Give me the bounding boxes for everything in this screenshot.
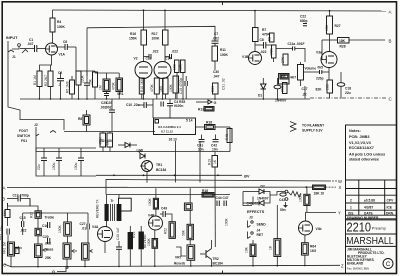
svg-text:R11: R11 (220, 48, 226, 52)
svg-text:1N4007: 1N4007 (257, 197, 269, 201)
svg-text:R17: R17 (152, 32, 158, 36)
resistor R4 (52, 10, 54, 18)
svg-text:1: 1 (350, 206, 352, 210)
svg-text:TO FILAMENT: TO FILAMENT (302, 124, 324, 128)
svg-text:0k5: 0k5 (318, 66, 324, 70)
resistor R23 (213, 83, 219, 94)
svg-text:10K: 10K (179, 63, 183, 70)
svg-text:8,7 11,12: 8,7 11,12 (161, 130, 173, 134)
svg-text:1K8: 1K8 (173, 64, 177, 70)
svg-text:10K: 10K (245, 246, 249, 253)
svg-text:A: A (3, 186, 6, 191)
BOTTOM CHANNEL (0, 152, 344, 275)
svg-text:100K: 100K (220, 53, 229, 57)
svg-text:V1,V2,V3,V4: V1,V2,V3,V4 (349, 141, 372, 145)
svg-text:C44: C44 (216, 196, 222, 200)
resistor R59 (304, 194, 310, 205)
svg-text:680p: 680p (300, 19, 308, 23)
diode D1 (261, 84, 267, 89)
resistor R3 (76, 71, 81, 85)
svg-text:C43: C43 (279, 198, 285, 202)
wire anode to coupling cap (56, 46, 65, 48)
resistor R54 (184, 203, 192, 210)
svg-text:100K: 100K (299, 193, 303, 202)
svg-text:10K: 10K (14, 245, 18, 252)
svg-text:220p: 220p (316, 77, 324, 81)
svg-text:18K: 18K (339, 39, 346, 43)
svg-text:16 13: 16 13 (169, 138, 177, 142)
jack J1 (8, 41, 28, 58)
transistor TR2 (205, 250, 207, 258)
svg-text:C30: C30 (213, 70, 219, 74)
wire line A (7, 186, 306, 188)
diode D3 (259, 201, 264, 206)
svg-text:R8: R8 (78, 117, 82, 121)
svg-text:Y: Y (338, 211, 341, 216)
svg-text:B: B (389, 39, 392, 44)
TITLE BLOCK (346, 125, 397, 273)
diode D4 (125, 143, 130, 148)
svg-text:ISS.: ISS. (348, 211, 354, 215)
bus line mid1 (64, 131, 155, 133)
svg-text:V2: V2 (134, 57, 138, 61)
svg-text:C47: C47 (223, 196, 229, 200)
svg-text:IC1 CA3080A 2,4: IC1 CA3080A 2,4 (158, 125, 181, 129)
svg-text:10n: 10n (212, 148, 218, 152)
resistor R35 VCF (35, 228, 41, 236)
wire HT bus A (53, 10, 387, 11)
svg-text:PCB: JMB3: PCB: JMB3 (349, 135, 369, 139)
svg-text:BC184: BC184 (213, 262, 223, 266)
svg-text:V4A: V4A (92, 225, 99, 229)
pot RV6 (139, 232, 144, 250)
svg-text:ICE: ICE (387, 206, 393, 210)
svg-text:.002: .002 (213, 37, 220, 41)
svg-text:.022: .022 (20, 229, 27, 233)
resistor R5 (70, 80, 75, 94)
svg-text:C46 .02: C46 .02 (247, 202, 259, 206)
resistor R11 (212, 46, 218, 61)
svg-text:470K: 470K (270, 47, 274, 56)
wire long vertical (214, 167, 216, 247)
reverb tank jack (285, 190, 288, 193)
svg-text:D2: D2 (261, 185, 265, 189)
svg-text:All pots LOG unless: All pots LOG unless (349, 153, 385, 157)
svg-text:C27: C27 (80, 222, 86, 226)
svg-text:9100n: 9100n (174, 104, 183, 108)
resistor R51 (187, 224, 193, 239)
wire channel top rail (106, 180, 331, 195)
svg-text:ZD1 15V: ZD1 15V (100, 139, 114, 143)
svg-text:R7: R7 (262, 28, 266, 32)
svg-text:1K5: 1K5 (310, 249, 316, 253)
svg-text:RET: RET (257, 233, 264, 237)
resistor R14 (100, 133, 106, 147)
svg-text:DRN.: DRN. (386, 211, 394, 215)
svg-text:R28: R28 (340, 45, 346, 49)
capacitor C23 (56, 157, 62, 159)
MIDDLE SECTION (8, 58, 296, 183)
svg-text:R27: R27 (335, 24, 341, 28)
svg-text:EFFECTS: EFFECTS (247, 210, 265, 214)
resistor R7 (254, 11, 256, 28)
svg-text:.002: .002 (100, 106, 107, 110)
resistor R56 (274, 239, 281, 257)
svg-text:150K: 150K (129, 37, 138, 41)
svg-text:10n: 10n (198, 148, 204, 152)
capacitor C5 (84, 82, 90, 84)
svg-text:DATE: DATE (364, 211, 374, 215)
triode V4B2 (299, 221, 313, 235)
svg-text:R52: R52 (164, 228, 168, 234)
svg-text:100K: 100K (225, 217, 229, 226)
svg-text:470K: 470K (150, 83, 154, 92)
svg-text:4K7: 4K7 (290, 76, 296, 80)
svg-text:82K: 82K (316, 88, 323, 92)
capacitor C18 (337, 83, 345, 87)
svg-text:stated otherwise: stated otherwise (349, 158, 379, 162)
svg-text:1M: 1M (99, 85, 103, 90)
resistor VR8 (116, 78, 123, 92)
svg-text:C14: C14 (165, 57, 171, 61)
svg-text:Z: Z (341, 263, 344, 268)
svg-text:100u: 100u (74, 162, 78, 170)
resistor R17 (164, 10, 166, 30)
svg-text:.01: .01 (82, 227, 87, 231)
svg-text:.022: .022 (260, 50, 267, 54)
capacitor C9 (160, 102, 162, 107)
svg-text:CPV: CPV (387, 199, 395, 203)
svg-text:V3a: V3a (316, 51, 322, 55)
resistor R14b (163, 78, 168, 94)
resistor R22 (283, 54, 288, 65)
svg-text:SUPPLY 6.3V: SUPPLY 6.3V (302, 129, 323, 133)
svg-text:C31 .02: C31 .02 (222, 78, 226, 90)
resistor R9 (270, 33, 275, 42)
svg-text:TR1: TR1 (156, 163, 162, 167)
svg-text:56K: 56K (182, 229, 186, 236)
svg-text:100K: 100K (152, 37, 161, 41)
transistor TR1 (142, 161, 153, 172)
resistor R64 (302, 243, 309, 255)
reverb output box (119, 198, 132, 211)
resistor R15 (107, 133, 113, 147)
wire drops to lower bus (175, 141, 177, 183)
svg-text:C22: C22 (300, 15, 306, 19)
svg-text:RV5: RV5 (132, 231, 136, 238)
resistor R12 (103, 79, 110, 92)
svg-text:R64: R64 (310, 245, 316, 249)
svg-text:Volume: Volume (305, 67, 317, 71)
resistor R55 (250, 244, 256, 256)
diode box D5 (279, 74, 290, 85)
svg-text:Treble: Treble (45, 216, 55, 220)
ground arrow G (208, 100, 212, 104)
svg-text:18K 10: 18K 10 (314, 192, 325, 196)
svg-text:A: A (389, 9, 392, 14)
svg-text:4/3/87: 4/3/87 (364, 206, 373, 210)
svg-text:.022: .022 (172, 50, 179, 54)
notes box (346, 125, 397, 180)
svg-text:C48 4u7: C48 4u7 (116, 227, 120, 240)
svg-text:.047: .047 (213, 75, 220, 79)
resistor R45 (227, 129, 232, 143)
ground bus top stage (20, 98, 310, 100)
svg-text:TR2: TR2 (213, 257, 219, 261)
pot VR5 (82, 243, 90, 260)
svg-text:SWITCH: SWITCH (17, 134, 31, 138)
resistor R13b (154, 78, 159, 94)
svg-text:R5 1M8: R5 1M8 (65, 81, 69, 93)
drawing number 2210 Preamp (346, 219, 397, 221)
wire HT bus 2 (87, 26, 215, 41)
svg-text:C15 4700p: C15 4700p (179, 78, 183, 94)
IC1 (154, 118, 196, 135)
resistor R24 (283, 83, 288, 94)
title block outline (345, 125, 347, 273)
pot VR2 Bass (35, 244, 43, 258)
wire treble top (8, 206, 39, 211)
svg-text:J1: J1 (12, 55, 16, 59)
resistor R16 (143, 10, 145, 30)
svg-text:2: 2 (350, 199, 352, 203)
pot VR7 (187, 245, 195, 260)
resistor R26 (280, 74, 289, 79)
pot wiper VR1 (17, 247, 20, 250)
svg-text:BC184: BC184 (156, 168, 166, 172)
svg-text:470K: 470K (112, 81, 116, 90)
svg-text:V1A: V1A (59, 53, 66, 57)
resistor R1 (37, 71, 42, 87)
svg-text:C11a .001F: C11a .001F (288, 42, 305, 46)
filament arrows (290, 122, 296, 127)
resistor R18 cathode (139, 78, 144, 94)
svg-text:C49: C49 (161, 207, 167, 211)
svg-text:±0.5.88: ±0.5.88 (364, 199, 375, 203)
svg-text:Fax: BV090C 8BN: Fax: BV090C 8BN (347, 266, 369, 270)
resistor R52 (169, 222, 175, 239)
svg-text:R4: R4 (57, 20, 61, 24)
registration tick bottom (222, 271, 224, 274)
svg-text:R18: R18 (206, 121, 212, 125)
capacitor C24 (41, 157, 47, 159)
wire tone rail (7, 203, 9, 206)
dash-dot C line (310, 97, 386, 99)
junction dots ground bus (39, 98, 279, 100)
volume pot VR3 (298, 65, 304, 81)
wire drops from rails (29, 199, 31, 207)
svg-text:50n: 50n (280, 208, 286, 212)
svg-text:56K: 56K (3, 209, 7, 216)
svg-text:25K: 25K (45, 256, 52, 260)
wire to Y (306, 212, 337, 221)
svg-text:ENGLAND: ENGLAND (347, 262, 364, 266)
svg-text:100K: 100K (57, 25, 66, 29)
svg-text:G: G (214, 101, 217, 105)
svg-text:22u: 22u (345, 91, 351, 95)
resistor R19 (214, 152, 216, 156)
TOP CHANNEL (6, 9, 393, 132)
svg-text:C8: C8 (260, 38, 264, 42)
resistor R20 (175, 60, 180, 73)
svg-text:W: W (338, 179, 342, 184)
svg-text:G: G (52, 270, 55, 274)
svg-text:R2 2K7: R2 2K7 (44, 75, 48, 86)
svg-text:C7: C7 (214, 32, 218, 36)
resistor R25 (328, 68, 330, 81)
svg-text:100u: 100u (52, 162, 56, 170)
svg-text:R23: R23 (211, 86, 215, 92)
svg-text:2K5: 2K5 (326, 84, 330, 90)
bottom ground bus (11, 265, 340, 267)
svg-text:R13: R13 (198, 108, 204, 112)
svg-text:5 14: 5 14 (186, 119, 193, 123)
wire V2 to IC (152, 99, 154, 118)
resistor R10 (272, 45, 277, 58)
svg-text:.047: .047 (27, 42, 34, 46)
svg-text:J3: J3 (249, 216, 253, 220)
pot wiper VR5 (90, 250, 93, 253)
svg-text:VR1 1M: VR1 1M (3, 242, 7, 254)
svg-text:R16: R16 (130, 32, 136, 36)
capacitor C26 (78, 157, 84, 159)
resistor R21 (181, 60, 186, 73)
svg-text:Notes:: Notes: (349, 129, 361, 133)
svg-text:C6: C6 (63, 40, 67, 44)
svg-text:22u: 22u (37, 164, 41, 170)
capacitor C19 (274, 85, 281, 89)
svg-text:C25: C25 (101, 101, 107, 105)
bus line mid2 (36, 151, 230, 153)
svg-text:C21: C21 (0, 234, 2, 240)
svg-text:MARSHALL: MARSHALL (346, 236, 394, 247)
reverb spring (288, 191, 301, 197)
svg-text:C18: C18 (345, 87, 351, 91)
capacitor C43 (280, 193, 286, 196)
resistor R28 (338, 38, 350, 44)
svg-text:2210: 2210 (347, 221, 372, 235)
svg-text:Preamp: Preamp (372, 225, 387, 230)
svg-text:C10 .22u: C10 .22u (126, 103, 140, 107)
svg-text:REVERB TX: REVERB TX (96, 199, 100, 218)
svg-text:100K: 100K (169, 83, 173, 92)
resistor R30 (5, 210, 10, 218)
svg-text:1K5: 1K5 (159, 86, 163, 92)
triode V1A (46, 43, 58, 55)
cathode wires V1A (40, 55, 52, 71)
pot VR4 Middle (63, 243, 71, 259)
pot wiper VR2 (43, 249, 46, 252)
svg-text:R9: R9 (268, 37, 272, 41)
svg-text:.022: .022 (152, 50, 159, 54)
svg-text:C: C (386, 261, 391, 268)
capacitor C42 (213, 139, 219, 141)
0V rail (96, 174, 242, 176)
MARSHALL logo (346, 245, 397, 247)
resistor R6 (93, 72, 98, 87)
wire V3 grid (321, 52, 322, 60)
svg-text:ØV: ØV (244, 174, 250, 178)
svg-text:V4b: V4b (316, 227, 322, 231)
resistor R50 (153, 198, 158, 209)
svg-text:100K: 100K (148, 197, 152, 206)
resistor R8 (83, 115, 90, 125)
svg-text:220K: 220K (81, 74, 85, 83)
PSU cap bank outline (36, 148, 96, 176)
svg-text:V1B: V1B (242, 55, 249, 59)
svg-text:VR1: VR1 (117, 92, 124, 96)
capacitor C23 (104, 93, 109, 95)
svg-text:VR7: VR7 (175, 256, 182, 260)
resistor R2 (48, 71, 53, 87)
svg-text:C13: C13 (146, 57, 152, 61)
junction dots bottom bus (37, 265, 306, 268)
svg-text:Bass: Bass (46, 248, 54, 252)
svg-text:R19: R19 (208, 159, 212, 165)
pot RV5 (128, 232, 133, 249)
svg-text:R45: R45 (225, 134, 229, 140)
revision table (346, 180, 397, 219)
svg-text:ECC83/12AX7: ECC83/12AX7 (349, 146, 374, 150)
svg-text:Reverb: Reverb (174, 262, 185, 266)
svg-text:10K: 10K (89, 78, 93, 85)
svg-text:100K: 100K (58, 224, 62, 233)
svg-text:1N4007: 1N4007 (275, 99, 287, 103)
svg-text:R1 1M: R1 1M (33, 75, 37, 85)
svg-text:B: B (2, 196, 5, 201)
wire reverb rail (107, 194, 231, 196)
svg-text:100K: 100K (147, 237, 151, 246)
registration tick top (222, 2, 224, 5)
resistor R34 (64, 222, 72, 236)
resistor R27 (329, 11, 331, 16)
wire from input stage to foot switch (8, 58, 64, 130)
resistor R15b (173, 76, 179, 93)
svg-text:D1: D1 (258, 94, 262, 98)
svg-text:.22: .22 (302, 93, 307, 97)
capacitor C41 (199, 139, 205, 141)
resistor R33 (35, 211, 41, 219)
resistor R53 (152, 239, 158, 249)
svg-text:27K: 27K (281, 56, 285, 63)
svg-text:INPUT: INPUT (6, 36, 18, 40)
copyright symbol (383, 259, 393, 269)
svg-text:22n: 22n (0, 225, 4, 231)
svg-text:R18 1K8: R18 1K8 (140, 79, 144, 92)
svg-text:FOOT: FOOT (19, 129, 28, 133)
svg-text:J2: J2 (34, 123, 38, 127)
svg-text:FS1: FS1 (21, 139, 27, 143)
svg-text:3M3: 3M3 (281, 85, 285, 92)
svg-text:10K: 10K (325, 24, 329, 31)
resistor R13 (204, 107, 214, 112)
svg-text:X: X (339, 185, 342, 190)
svg-text:SEND: SEND (257, 222, 267, 226)
pot wiper VR4 (72, 250, 75, 253)
resistor R58 (313, 185, 326, 190)
